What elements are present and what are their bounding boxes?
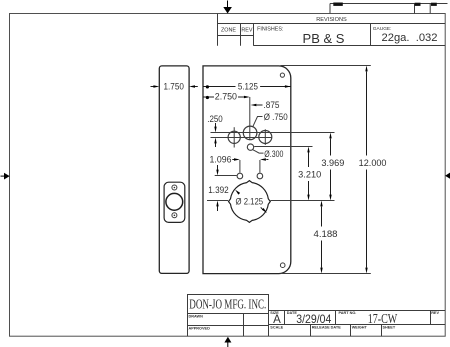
centering arrow bottom [224,337,231,347]
centerline circle row lower [211,137,273,139]
latch bore circle [166,193,183,210]
svg-text:22ga. .032: 22ga. .032 [382,32,438,44]
dim 1.096 [210,154,269,172]
svg-text:GAUGE:: GAUGE: [373,26,392,32]
svg-text:.875: .875 [264,100,280,110]
hole C1 [228,127,240,147]
svg-text:1.392: 1.392 [208,185,229,195]
hole C2 dia .750 [243,126,257,140]
svg-text:Ø .750: Ø .750 [264,112,288,122]
dim 2.750 [203,92,250,141]
centerline big bore right [271,200,335,202]
svg-text:1.096: 1.096 [210,154,232,164]
svg-text:REV: REV [241,27,252,33]
title block text [189,296,440,330]
dim 12.000 [359,66,387,274]
leader dia .750 [253,112,288,127]
svg-text:REV: REV [431,311,439,315]
svg-text:1.750: 1.750 [164,81,184,91]
svg-text:SCALE: SCALE [270,325,283,329]
dim 3.969 [321,133,344,201]
hole dia .300 [247,144,253,150]
dim 1.392 [208,165,229,211]
svg-text:PB & S: PB & S [303,31,345,46]
ext line studs left [215,175,237,177]
svg-text:APPROVED: APPROVED [189,327,211,331]
svg-text:.250: .250 [207,114,223,124]
svg-text:4.188: 4.188 [314,229,338,239]
svg-text:3.969: 3.969 [321,158,344,168]
dim .875 [251,100,280,110]
mounting hole top [280,73,284,77]
mounting hole bottom [280,263,285,268]
svg-text:Ø 2.125: Ø 2.125 [236,197,264,207]
centering arrow right [445,172,450,179]
zone strip top (cut off) [330,3,448,14]
dim .250 [207,114,223,147]
latch screw bottom [172,213,177,218]
svg-text:PART NO.: PART NO. [339,311,357,315]
svg-text:12.000: 12.000 [359,158,387,168]
big bore dia 2.125 scalloped [229,181,271,223]
svg-text:ZONE: ZONE [221,27,236,33]
stud hole right [257,173,263,179]
ext line dia .300 right [254,146,312,148]
svg-text:5.125: 5.125 [238,82,258,92]
centering arrow left [1,173,10,180]
svg-text:3.210: 3.210 [298,169,321,179]
svg-text:DON-JO MFG. INC.: DON-JO MFG. INC. [189,296,266,311]
dim 4.188 [314,201,338,274]
leader dia 2.125 [235,190,267,213]
ext line plate top right [281,65,371,67]
svg-text:FINISHES:: FINISHES: [257,26,283,32]
revisions text [221,17,437,46]
svg-text:2.750: 2.750 [215,92,237,102]
hole C3 [259,129,272,145]
svg-text:REVISIONS: REVISIONS [316,17,347,23]
svg-text:3/29/04: 3/29/04 [296,312,331,326]
dim 1.750 [151,81,198,91]
dim 3.210 [298,147,321,201]
svg-text:RELEASE DATE: RELEASE DATE [312,325,342,329]
latch screw top [172,185,177,190]
revisions block grid [218,14,446,46]
leader dia .300 [253,149,284,159]
title block [188,295,446,337]
centerline circle row upper [211,132,335,134]
dim 5.125 [203,82,291,92]
svg-text:WEIGHT: WEIGHT [352,325,368,329]
main plate outline [203,66,291,274]
svg-text:SHEET: SHEET [383,325,396,329]
centering arrow top [223,1,232,14]
svg-text:Ø.300: Ø.300 [264,149,283,159]
latch plate rounded rect [164,182,185,222]
stud hole left [237,173,243,179]
centerline big bore left [207,200,228,202]
left view outline [159,66,189,274]
ext line plate bottom right [281,273,371,275]
svg-text:DRAWN: DRAWN [189,315,204,319]
